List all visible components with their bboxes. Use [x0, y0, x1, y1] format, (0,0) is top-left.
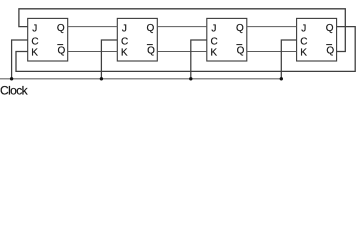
svg-text:J: J	[301, 23, 306, 34]
wire Q3 to J4	[247, 26, 297, 28]
wire clock bus	[0, 78, 281, 80]
junction dot at C2	[100, 77, 103, 80]
flip-flop FF4 box	[297, 18, 337, 61]
wire clock to C3	[191, 40, 207, 79]
wire Qbar1 to K2	[68, 51, 118, 53]
FF4 Qbar overline	[326, 44, 332, 46]
svg-text:Q: Q	[58, 46, 66, 57]
wire Q2 to J3	[157, 26, 207, 28]
svg-text:Q: Q	[57, 23, 65, 34]
FF3 Qbar overline	[236, 44, 242, 46]
flip-flop FF4 pin labels	[300, 23, 334, 59]
junction dot at C3	[189, 77, 192, 80]
svg-text:Q: Q	[147, 23, 155, 34]
svg-text:Q: Q	[237, 46, 245, 57]
wire clock to C2	[101, 40, 117, 79]
svg-text:J: J	[32, 23, 37, 34]
svg-text:K: K	[210, 48, 217, 59]
wire clock to C4	[281, 40, 296, 79]
flip-flop FF2 pin labels	[121, 23, 155, 59]
wire Qbar3 to K4	[247, 51, 297, 53]
wire Q1 to J2	[68, 26, 118, 28]
FF1 Qbar overline	[57, 44, 63, 46]
svg-text:J: J	[122, 23, 127, 34]
svg-text:C: C	[121, 36, 128, 47]
svg-text:K: K	[31, 48, 38, 59]
svg-text:Q: Q	[326, 46, 334, 57]
svg-text:J: J	[211, 23, 216, 34]
flip-flop FF1 pin labels J C K Q Qbar	[31, 23, 65, 59]
flip-flop FF3 pin labels	[210, 23, 244, 59]
flip-flop FF3 box	[207, 18, 247, 61]
junction dot at C1	[10, 77, 13, 80]
FF2 Qbar overline	[147, 44, 153, 46]
svg-text:C: C	[300, 36, 307, 47]
svg-text:C: C	[31, 36, 38, 47]
wire Q4 feedback to K1 (bottom line)	[16, 27, 355, 72]
svg-text:Q: Q	[326, 23, 334, 34]
flip-flop FF2 box	[117, 18, 157, 61]
svg-text:C: C	[211, 36, 218, 47]
wire Qbar2 to K3	[157, 51, 207, 53]
wire clock to C1	[12, 40, 28, 79]
svg-text:Clock: Clock	[0, 84, 29, 98]
svg-text:K: K	[121, 48, 128, 59]
svg-text:K: K	[300, 48, 307, 59]
svg-text:Q: Q	[236, 23, 244, 34]
junction dot at C4	[280, 77, 283, 80]
wire Qbar4 feedback to J1 (top line)	[19, 9, 345, 52]
svg-text:Q: Q	[147, 46, 155, 57]
flip-flop FF1 box	[28, 18, 68, 61]
